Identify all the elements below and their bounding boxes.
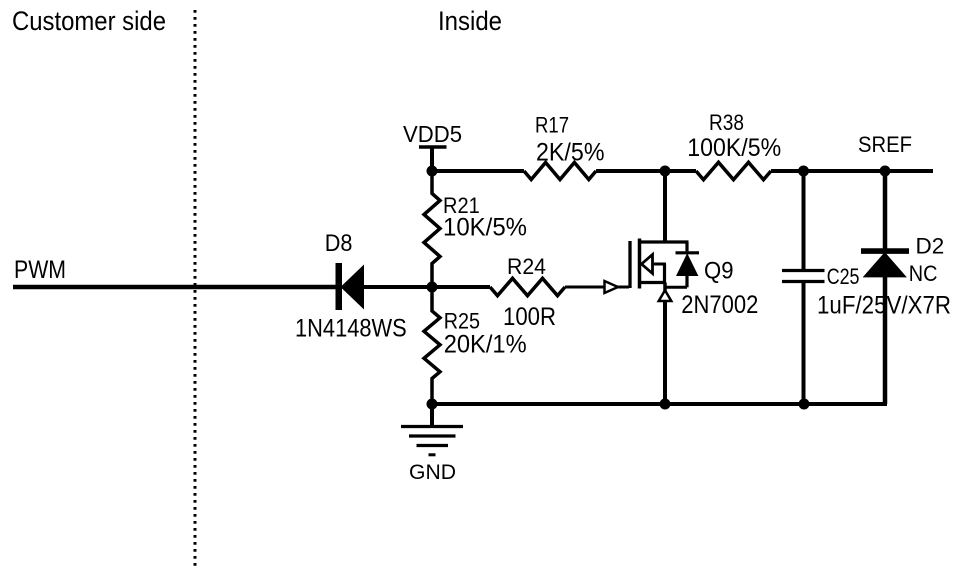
ground symbol bar 4	[429, 453, 436, 456]
svg-text:Q9: Q9	[704, 257, 734, 284]
body diode triangle	[676, 253, 698, 276]
node D2 top junction	[880, 166, 891, 177]
wire Q9 source down to ground rail	[663, 301, 667, 404]
diode D2 anode triangle	[863, 252, 907, 277]
svg-text:NC: NC	[909, 261, 938, 286]
wire R24 to gate of Q9	[565, 286, 629, 289]
wire D8 to PWM node	[364, 285, 432, 289]
separator dotted line between customer side and inside	[194, 10, 197, 567]
svg-text:GND: GND	[409, 461, 456, 484]
transistor Q9 gate bar	[628, 241, 631, 288]
power flag VDD5 bar	[419, 145, 447, 149]
transistor Q9 body-to-source vertical	[663, 264, 666, 283]
svg-text:Inside: Inside	[438, 6, 502, 36]
node source bottom junction	[660, 399, 671, 410]
capacitor C25 top plate	[782, 269, 825, 272]
diode D2 cathode bar	[861, 248, 909, 254]
body diode bottom stub	[685, 276, 688, 287]
transistor Q9 body line	[651, 263, 666, 266]
body diode cathode bar	[676, 251, 700, 254]
wire source to body diode stub	[665, 286, 687, 289]
svg-text:SREF: SREF	[858, 132, 912, 157]
diode D8 cathode bar	[336, 263, 343, 310]
wire top rail VDD5 to R17	[432, 169, 524, 173]
node drain junction	[660, 166, 671, 177]
transistor Q9 channel bar	[638, 239, 642, 289]
svg-text:Customer side: Customer side	[12, 6, 166, 36]
svg-text:D2: D2	[916, 234, 945, 259]
bottom ground rail	[432, 402, 887, 406]
diode D8 anode triangle	[341, 265, 365, 310]
svg-text:C25: C25	[827, 264, 860, 289]
transistor Q9 drain horizontal	[640, 240, 689, 243]
resistor R38	[696, 162, 771, 179]
svg-text:R38: R38	[709, 110, 744, 135]
svg-text:1N4148WS: 1N4148WS	[295, 315, 407, 343]
wire D2 top	[883, 171, 888, 250]
node ground junction	[427, 399, 438, 410]
wire PWM node to R24	[432, 285, 490, 289]
svg-text:20K/1%: 20K/1%	[444, 330, 527, 358]
ground symbol bar 3	[417, 444, 449, 447]
resistor R17	[524, 163, 596, 180]
source arrow (open, points up)	[659, 290, 672, 301]
wire top rail R17 to R38	[596, 169, 696, 173]
svg-text:R24: R24	[507, 254, 546, 279]
wire D2 bottom	[883, 277, 888, 404]
gate input arrow (open)	[605, 281, 619, 293]
wire PWM input	[13, 285, 336, 290]
wire C25 bottom	[802, 283, 806, 404]
wire C25 top	[802, 171, 806, 269]
wire source stub to arrow	[663, 283, 667, 292]
capacitor C25 bottom plate	[782, 280, 825, 283]
node C25 top junction	[798, 166, 809, 177]
svg-text:R17: R17	[535, 113, 569, 138]
svg-text:VDD5: VDD5	[403, 121, 462, 147]
svg-text:2N7002: 2N7002	[681, 291, 758, 319]
svg-text:D8: D8	[325, 230, 353, 257]
node C25 bottom junction	[799, 399, 810, 410]
node junction PWM/R21/R25/R24	[427, 282, 438, 293]
body diode top stub	[685, 242, 688, 251]
resistor R24	[490, 278, 565, 295]
ground symbol stub	[430, 404, 434, 426]
ground symbol bar 2	[409, 434, 456, 437]
wire top rail R38 to SREF end	[771, 169, 933, 173]
svg-text:100K/5%: 100K/5%	[687, 134, 781, 162]
svg-text:2K/5%: 2K/5%	[536, 138, 605, 166]
ground symbol bar 1	[401, 425, 463, 428]
resistor R25	[424, 287, 440, 404]
node VDD5 rail junction	[427, 166, 438, 177]
resistor R21	[424, 171, 440, 287]
power flag VDD5 stub	[430, 147, 434, 171]
svg-text:PWM: PWM	[14, 256, 66, 284]
svg-text:100R: 100R	[503, 303, 556, 331]
transistor Q9 body arrow (open, points at channel)	[642, 255, 653, 274]
svg-text:10K/5%: 10K/5%	[443, 214, 527, 242]
wire Q9 drain up to node	[663, 171, 667, 242]
transistor Q9 source horizontal	[640, 281, 666, 284]
